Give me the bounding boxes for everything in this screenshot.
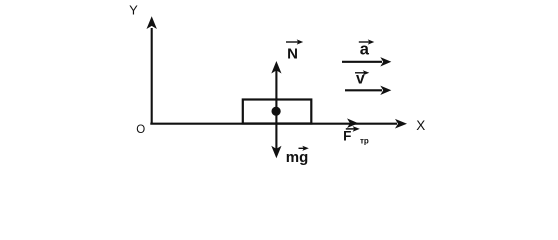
label v [356, 71, 365, 88]
svg-text:mg: mg [286, 149, 309, 166]
velocity vector v [345, 86, 391, 95]
acceleration vector a [342, 57, 391, 66]
x-axis label X [416, 118, 425, 133]
vector bar over v [355, 70, 369, 75]
label a [360, 41, 370, 59]
label F [343, 128, 351, 143]
vector bar over N [286, 39, 303, 44]
label N [287, 46, 298, 63]
center-of-mass dot [272, 107, 281, 116]
svg-text:v: v [356, 71, 365, 88]
vector bar over a [359, 39, 375, 44]
y-axis label Y [129, 3, 138, 18]
svg-text:a: a [360, 41, 370, 59]
x-axis [150, 119, 407, 129]
subscript тр [360, 137, 369, 146]
svg-text:X: X [416, 118, 425, 133]
svg-text:Y: Y [129, 3, 138, 18]
svg-text:N: N [287, 46, 298, 63]
friction force arrowhead on axis [347, 118, 358, 128]
vector bar over mg [299, 146, 309, 151]
normal force N arrowhead [271, 61, 281, 74]
origin label O [136, 124, 145, 136]
y-axis [147, 16, 157, 124]
svg-text:F: F [343, 128, 351, 143]
force line through block (N up / mg down) [275, 70, 277, 149]
gravity mg arrowhead [271, 146, 281, 159]
svg-text:тр: тр [360, 137, 369, 146]
vector bar over F [346, 126, 360, 132]
block (body on surface) [243, 100, 311, 124]
svg-text:O: O [136, 124, 145, 136]
label mg [286, 149, 309, 166]
